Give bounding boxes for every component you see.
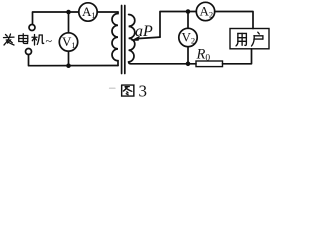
resistor R0 box (196, 61, 223, 67)
generator top terminal (29, 25, 35, 31)
caption 图3 (110, 87, 116, 89)
wire V1 bottom (68, 51, 70, 65)
wire R0 to user box bottom (223, 49, 252, 64)
svg-text:~: ~ (46, 34, 53, 48)
transformer secondary coil (129, 15, 135, 64)
wire bottom-left rail (29, 55, 119, 66)
svg-text:3: 3 (139, 82, 148, 100)
slider P arrow wire (137, 37, 160, 39)
voltmeter V1 (59, 33, 77, 51)
node junction V2 bottom (186, 62, 191, 67)
wire secondary coil bottom rail (131, 63, 188, 65)
wire V2 bottom (187, 47, 189, 64)
wire junction to R0 (190, 63, 196, 65)
ammeter A2 (196, 2, 214, 20)
svg-text:aP: aP (135, 23, 153, 40)
发 (4, 34, 15, 45)
wire top-left rail from generator top to ammeter A1 (33, 12, 79, 24)
wire V2 top (187, 12, 189, 29)
户 (252, 32, 263, 46)
wire A1 to primary coil top (97, 11, 118, 13)
generator bottom terminal (26, 49, 32, 55)
node junction V2 top (186, 9, 191, 14)
wire junction to A2 (190, 11, 196, 13)
slider arrowhead (131, 36, 140, 41)
node junction V1 top (66, 10, 71, 15)
transformer core (121, 6, 123, 74)
transformer primary coil (112, 12, 118, 66)
ammeter A1 (79, 3, 97, 21)
node junction V1 bottom (66, 63, 71, 68)
wire A2 to user box (215, 12, 253, 29)
user box 用户 (230, 29, 269, 49)
wire slider to top rail and to junction (160, 12, 188, 38)
voltmeter V2 (179, 28, 197, 46)
机 (32, 35, 44, 46)
电 (19, 34, 28, 44)
图 (122, 85, 134, 96)
generator label 发电机~ (4, 34, 53, 48)
wire V1 top (68, 12, 70, 33)
用 (236, 33, 246, 45)
